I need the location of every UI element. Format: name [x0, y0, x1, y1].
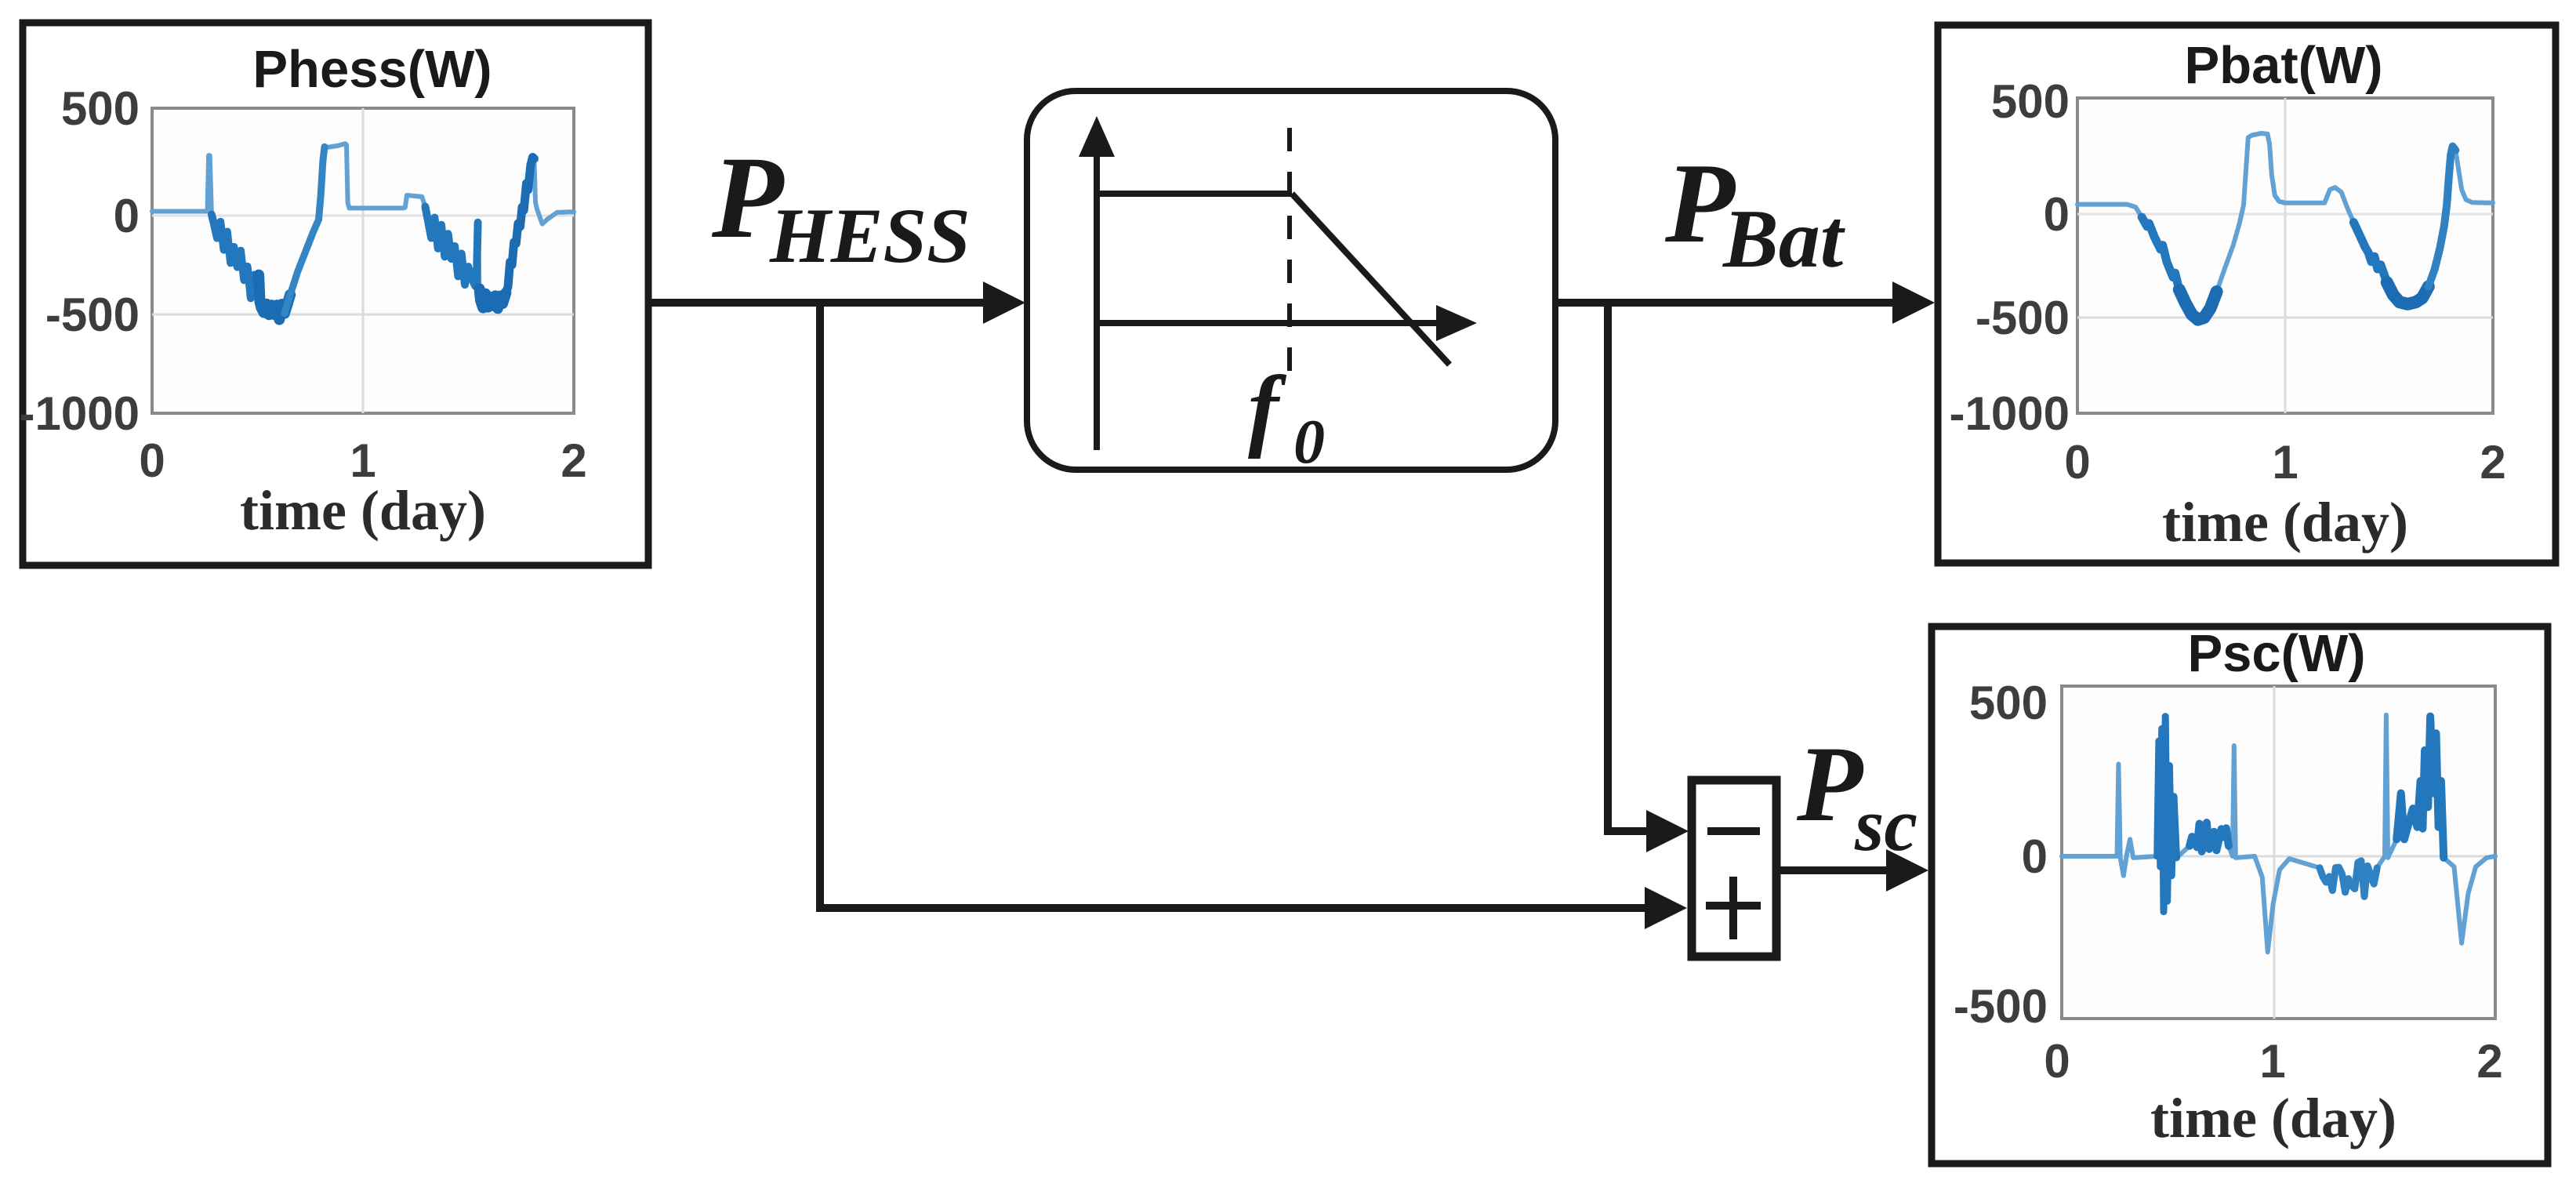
svg-text:0: 0: [2022, 830, 2048, 883]
label P_HESS: [711, 133, 971, 279]
arrowhead into Pbat box: [1892, 281, 1935, 324]
svg-text:-1000: -1000: [20, 387, 140, 440]
svg-text:0: 0: [2064, 436, 2090, 488]
svg-text:-500: -500: [45, 289, 140, 341]
svg-text:Phess(W): Phess(W): [252, 40, 492, 99]
svg-text:time (day): time (day): [2162, 491, 2408, 554]
svg-text:HESS: HESS: [769, 192, 971, 279]
arrowhead into filter: [983, 281, 1025, 324]
node junction on P_HESS wire: [816, 303, 824, 908]
svg-text:2: 2: [2476, 1035, 2502, 1088]
plus sign: [1706, 902, 1761, 910]
svg-text:Bat: Bat: [1722, 193, 1846, 285]
wire lower branch to summer plus input: [816, 904, 1646, 912]
filter roll-off diagonal: [1292, 194, 1449, 365]
svg-text:0: 0: [114, 190, 140, 242]
svg-text:2: 2: [561, 434, 586, 487]
svg-text:time (day): time (day): [2150, 1087, 2396, 1149]
svg-text:500: 500: [61, 82, 140, 135]
curve Pbat trace: [2077, 133, 2493, 320]
svg-text:Psc(W): Psc(W): [2187, 624, 2365, 683]
wire P_Bat: filter to Pbat box: [1555, 299, 1897, 307]
wire P_sc: summer to Psc box: [1776, 866, 1891, 874]
svg-text:500: 500: [1991, 75, 2070, 128]
svg-text:0: 0: [139, 434, 165, 487]
svg-text:0: 0: [1293, 408, 1325, 477]
cutoff dashed line f0: [1287, 128, 1292, 384]
svg-text:sc: sc: [1854, 783, 1917, 866]
wire P_HESS: Phess box to filter: [649, 299, 992, 307]
svg-text:1: 1: [2272, 436, 2298, 488]
label P_sc: [1796, 724, 1917, 866]
scope block Pbat (battery power plot): [1938, 25, 2556, 563]
curve Psc trace: [2062, 715, 2495, 952]
svg-text:0: 0: [2044, 188, 2070, 241]
svg-text:-500: -500: [1954, 980, 2048, 1033]
svg-text:time (day): time (day): [240, 479, 486, 542]
curve Phess trace: [152, 143, 574, 319]
svg-text:500: 500: [1969, 677, 2048, 729]
low-pass filter block U1: [1027, 91, 1555, 477]
filter passband flat line: [1097, 191, 1292, 197]
svg-text:-1000: -1000: [1950, 387, 2070, 440]
label P_Bat: [1664, 140, 1846, 285]
node junction on P_Bat wire: [1604, 303, 1612, 827]
scope block Phess (input power plot): [20, 23, 648, 565]
filter y-axis: [1094, 137, 1100, 450]
arrowhead into summer minus input: [1646, 810, 1689, 852]
svg-text:2: 2: [2480, 436, 2505, 488]
wire branch to summer minus input: [1604, 827, 1646, 835]
svg-text:-500: -500: [1976, 292, 2070, 344]
minus sign: [1707, 827, 1760, 835]
arrowhead into Psc box: [1886, 849, 1928, 892]
svg-text:Pbat(W): Pbat(W): [2184, 36, 2382, 95]
svg-text:0: 0: [2044, 1035, 2070, 1088]
filter x-axis: [1097, 320, 1446, 326]
arrowhead into summer plus input: [1645, 887, 1687, 929]
summer block (subtractor): [1692, 780, 1776, 957]
svg-text:P: P: [1796, 724, 1864, 844]
svg-text:1: 1: [2259, 1035, 2285, 1088]
scope block Psc (supercapacitor power plot): [1932, 624, 2548, 1164]
